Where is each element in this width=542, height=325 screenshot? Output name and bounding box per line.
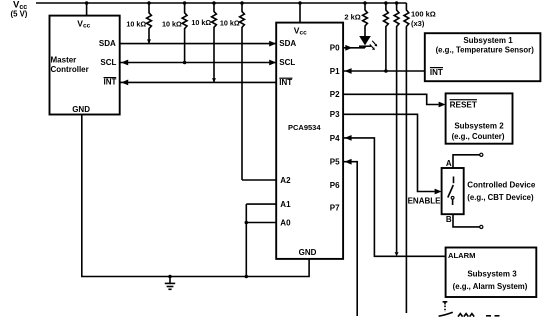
svg-text:ENABLE: ENABLE: [408, 197, 442, 206]
svg-text:Subsystem 1: Subsystem 1: [463, 36, 513, 45]
svg-text:Master: Master: [51, 55, 77, 64]
svg-text:10 kΩ: 10 kΩ: [191, 18, 211, 27]
svg-text:P3: P3: [330, 110, 340, 119]
svg-text:P0: P0: [330, 44, 340, 53]
svg-text:2 kΩ: 2 kΩ: [344, 13, 360, 22]
svg-text:SDA: SDA: [99, 39, 116, 48]
svg-text:A: A: [446, 159, 452, 168]
svg-text:INT: INT: [430, 68, 443, 77]
svg-text:P5: P5: [330, 158, 340, 167]
svg-text:SCL: SCL: [100, 58, 116, 67]
svg-text:A2: A2: [280, 176, 291, 185]
svg-text:SDA: SDA: [279, 39, 296, 48]
svg-text:ALARM: ALARM: [448, 251, 475, 260]
svg-text:GND: GND: [299, 248, 317, 257]
svg-text:(e.g., Alarm System): (e.g., Alarm System): [453, 282, 528, 291]
svg-text:10 kΩ: 10 kΩ: [220, 19, 240, 28]
svg-text:SCL: SCL: [279, 58, 295, 67]
svg-text:A1: A1: [280, 200, 291, 209]
svg-text:P7: P7: [330, 203, 340, 212]
svg-text:B: B: [446, 215, 452, 224]
svg-text:RESET: RESET: [450, 101, 477, 110]
svg-text:(e.g., CBT Device): (e.g., CBT Device): [467, 193, 534, 202]
svg-text:A0: A0: [280, 218, 291, 227]
svg-text:PCA9534: PCA9534: [288, 123, 321, 132]
svg-text:(x3): (x3): [411, 19, 425, 28]
svg-text:P1: P1: [330, 67, 340, 76]
svg-text:Controlled Device: Controlled Device: [467, 181, 536, 190]
svg-text:(5 V): (5 V): [11, 10, 28, 19]
svg-text:100 kΩ: 100 kΩ: [411, 9, 436, 18]
svg-text:10 kΩ: 10 kΩ: [126, 20, 146, 29]
svg-text:Subsystem 3: Subsystem 3: [467, 269, 517, 278]
svg-text:INT: INT: [279, 78, 292, 87]
svg-text:P2: P2: [330, 90, 340, 99]
svg-text:P6: P6: [330, 181, 340, 190]
svg-text:10 kΩ: 10 kΩ: [162, 20, 182, 29]
svg-text:(e.g., Temperature Sensor): (e.g., Temperature Sensor): [436, 45, 535, 54]
svg-text:(e.g., Counter): (e.g., Counter): [452, 132, 505, 141]
svg-text:INT: INT: [104, 78, 117, 87]
svg-text:P4: P4: [330, 134, 340, 143]
svg-text:GND: GND: [72, 105, 90, 114]
svg-text:Controller: Controller: [51, 65, 89, 74]
svg-text:Subsystem 2: Subsystem 2: [454, 121, 504, 130]
